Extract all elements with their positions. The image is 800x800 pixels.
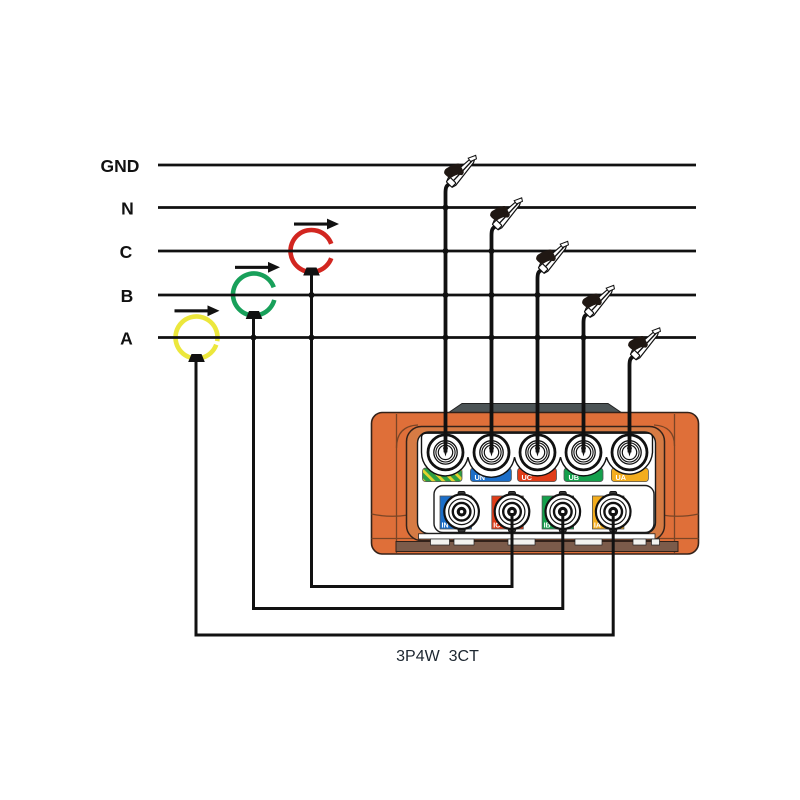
CT clamp A (yellow): [176, 316, 218, 362]
svg-text:A: A: [120, 329, 133, 349]
CT clamp B (green): [233, 273, 274, 319]
current arrow B: [235, 262, 280, 273]
current input panel: [434, 486, 654, 533]
bus line C: [120, 242, 696, 262]
caption 3P4W 3CT: [396, 648, 479, 665]
probe wire A: [627, 357, 634, 457]
CT lead C to IC: [312, 274, 513, 587]
current tag IA (amber): [592, 496, 624, 530]
probe wire C: [535, 270, 542, 457]
BNC jack IC: [495, 492, 530, 532]
voltage tag UA (amber): [611, 468, 648, 482]
bus line N: [121, 199, 696, 219]
bus line B: [121, 286, 696, 306]
svg-text:C: C: [120, 242, 133, 262]
voltage tag UB (green): [564, 468, 603, 482]
panel rim: [407, 427, 665, 541]
svg-text:3P4W 3CT: 3P4W 3CT: [396, 648, 479, 665]
probe wire N: [489, 227, 496, 457]
banana jack UC: [520, 435, 555, 470]
junction dots CT C lead: [309, 292, 315, 341]
analyzer body: [372, 413, 699, 555]
bus line A: [120, 329, 696, 349]
body seam lines: [372, 414, 699, 553]
banana jack UB: [566, 435, 601, 470]
svg-text:B: B: [121, 286, 134, 306]
svg-text:N: N: [121, 199, 134, 219]
alligator clip C: [532, 233, 573, 274]
current arrow A: [175, 305, 220, 316]
voltage tag UC (red): [518, 468, 557, 482]
junction dots GND wire: [443, 205, 449, 341]
BNC jack IA: [596, 492, 631, 532]
junction dots C wire: [535, 292, 541, 341]
junction dot CT B lead: [251, 335, 257, 341]
current arrow C: [294, 219, 339, 230]
analyzer top handle strip: [448, 404, 622, 414]
CT lead B to IB: [254, 318, 563, 609]
alligator clip GND: [440, 147, 481, 188]
BNC jack IB: [546, 492, 581, 532]
current tag IN (blue): [440, 496, 472, 530]
alligator clip N: [486, 189, 527, 230]
CT clamp C (red): [290, 230, 331, 276]
junction dots N wire: [489, 248, 495, 341]
current tag IB (green): [542, 496, 574, 530]
banana jack UA: [612, 435, 647, 470]
alligator clip B: [578, 277, 619, 318]
banana jack GND/UGND: [428, 435, 463, 470]
probe wire GND: [443, 184, 450, 457]
bottom recess strip: [396, 534, 678, 552]
CT lead A to IA: [196, 361, 613, 635]
svg-text:GND: GND: [101, 156, 140, 176]
bus line GND: [101, 156, 696, 176]
svg-text:IN: IN: [442, 523, 449, 530]
voltage tag GND (green/yellow stripes): [423, 468, 463, 482]
probe wire B: [581, 314, 588, 457]
junction dot B wire: [581, 335, 587, 341]
voltage tag UN (blue): [470, 468, 511, 482]
current tag IC (red): [492, 496, 524, 530]
alligator clip A: [624, 319, 665, 360]
scalloped white band around voltage inputs: [422, 433, 653, 477]
banana jack UN: [474, 435, 509, 470]
connector panel: [418, 432, 656, 534]
BNC jack IN: [444, 492, 479, 532]
